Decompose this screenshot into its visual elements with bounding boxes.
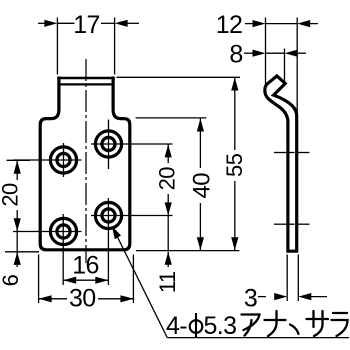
hole BL crosshair bbox=[13, 231, 82, 233]
hole TL crosshair bbox=[13, 159, 82, 161]
neck fold line bbox=[58, 83, 115, 85]
leader underline under note bbox=[167, 337, 349, 339]
dim 55 bbox=[234, 78, 236, 150]
japanese comma bbox=[290, 325, 299, 335]
hole BR crosshair bbox=[91, 215, 173, 217]
side view upper hole center mark bbox=[274, 152, 286, 154]
centerline vertical of front view bbox=[85, 59, 87, 263]
svg-text:11: 11 bbox=[155, 271, 180, 293]
dim 20 right bbox=[167, 144, 169, 163]
svg-text:20: 20 bbox=[154, 167, 179, 191]
katakana NA bbox=[265, 319, 286, 321]
hole TL bore bbox=[57, 153, 70, 166]
leader arrowhead bbox=[112, 226, 121, 239]
hole TR crosshair bbox=[91, 143, 173, 145]
ext line bottom left bbox=[5, 251, 39, 253]
dim 17 bbox=[56, 18, 58, 75]
svg-text:5.3: 5.3 bbox=[204, 312, 237, 340]
leader line to hole note bbox=[113, 227, 168, 338]
svg-text:3: 3 bbox=[244, 284, 257, 312]
front view plate outline bbox=[40, 77, 130, 250]
svg-text:16: 16 bbox=[72, 251, 99, 279]
svg-text:17: 17 bbox=[73, 11, 100, 39]
ext line 40 top bbox=[136, 117, 207, 119]
svg-text:20: 20 bbox=[0, 183, 23, 207]
phi symbol bbox=[190, 320, 203, 333]
svg-text:12: 12 bbox=[216, 11, 243, 39]
dim 6 bbox=[16, 231, 18, 251]
hole BR bore bbox=[102, 209, 115, 222]
svg-text:40: 40 bbox=[189, 173, 216, 199]
svg-text:4-: 4- bbox=[166, 312, 187, 340]
hole BL countersink bbox=[50, 218, 76, 244]
hole BR countersink bbox=[95, 202, 121, 228]
hole TL countersink bbox=[50, 147, 76, 173]
hole TR bore bbox=[102, 137, 115, 150]
dim 30 bbox=[38, 255, 40, 304]
dim 40 bbox=[199, 118, 201, 168]
ext line bottom right bbox=[136, 250, 239, 252]
svg-text:8: 8 bbox=[229, 41, 242, 69]
svg-text:55: 55 bbox=[222, 153, 247, 177]
dim 12 bbox=[265, 18, 267, 88]
dim 3 bbox=[286, 255, 288, 302]
neck top edge line bbox=[57, 77, 114, 80]
side view bent strip profile bbox=[265, 76, 297, 251]
dim 11 bbox=[167, 215, 169, 251]
katakana A bbox=[242, 315, 260, 331]
dim 8 bbox=[284, 49, 286, 84]
hole BL bore bbox=[57, 225, 70, 238]
dim 20 left bbox=[7, 159, 31, 161]
dim 16 bbox=[63, 279, 108, 281]
svg-text:30: 30 bbox=[69, 284, 96, 312]
ext line 55 top bbox=[117, 76, 241, 78]
hole TR countersink bbox=[95, 131, 121, 157]
katakana SA bbox=[307, 318, 329, 320]
svg-text:6: 6 bbox=[0, 274, 23, 286]
side view lower hole center mark bbox=[274, 223, 286, 225]
katakana RA bbox=[333, 312, 347, 314]
